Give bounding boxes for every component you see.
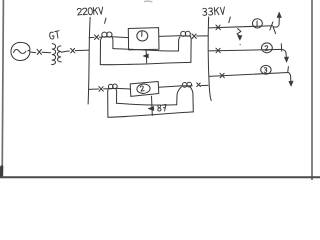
line 2: breaker X (right): [197, 83, 201, 87]
breaker X (generator side): [37, 49, 42, 54]
relay 2 mark (2): [140, 86, 144, 92]
label 33KV: [203, 7, 225, 16]
wire through CT: [108, 87, 117, 89]
line 2 CT secondary outer wire: [108, 112, 193, 117]
tick under 220KV label: [105, 18, 106, 23]
line 2: wire relay box to right CT: [159, 86, 181, 87]
line 1: wire breaker to CT: [99, 36, 102, 38]
relay 1 connection wire: [145, 50, 148, 63]
circled number 2: [262, 43, 273, 53]
page background: [0, 0, 320, 180]
line 2: wire breaker to 33kV bus: [201, 84, 208, 86]
relay 1 circle symbol: [137, 31, 148, 41]
relay 1 mark (1): [141, 32, 143, 37]
label 220KV: [77, 7, 103, 16]
line 1: wire relay box to right CT: [159, 35, 179, 38]
bus 33kV: [208, 17, 211, 101]
line 2: wire bus to breaker: [89, 88, 99, 90]
feeder 2 breaker X: [216, 48, 220, 53]
feeder 1 fault lightning arrow: [237, 29, 241, 37]
line 1: breaker X (right): [192, 34, 196, 39]
line 1 left CT secondary lead (outer): [100, 38, 101, 65]
line 1: CT (right) loops: [181, 31, 186, 36]
line 1 CT secondary outer wire: [100, 62, 191, 64]
line 1: wire CT to relay box: [112, 36, 128, 39]
relay box 1: [128, 28, 159, 50]
wire through CT: [102, 36, 112, 38]
feeder 1 end arrow (up): [273, 16, 279, 27]
wire breaker to transformer: [42, 51, 51, 54]
line 2 right CT secondary lead (inner): [177, 87, 182, 105]
bus 220kV: [88, 17, 90, 104]
feeder 3 wire: [209, 73, 288, 77]
line 1: wire bus to breaker: [89, 36, 94, 38]
relay 2 arrow: [148, 106, 154, 110]
feeder 3 end arrow (down): [288, 73, 291, 83]
feeder 1 stub: [273, 27, 276, 33]
wire breaker to 220kV bus: [75, 49, 89, 52]
wire through CT: [179, 35, 191, 37]
feeder 3 breaker X: [220, 73, 224, 78]
line 2: CT (left) loops: [108, 84, 113, 89]
line 1 left CT secondary lead (inner): [111, 37, 114, 48]
line 1 right CT secondary lead (outer): [189, 37, 192, 63]
circled number 3: [261, 65, 271, 74]
line 1: breaker X (left): [94, 35, 98, 40]
line 1: wire breaker to 33kV bus: [197, 35, 208, 37]
relay 2 connection wire: [151, 96, 154, 115]
feeder 1 end slash: [270, 22, 273, 30]
generator G: [11, 42, 30, 60]
feeder 2 end tick: [280, 44, 282, 51]
circled number 1: [253, 19, 263, 28]
line 2 left CT secondary lead (outer): [107, 89, 110, 117]
tick under 33KV label: [229, 17, 231, 23]
label GT: [49, 31, 60, 40]
line 2: breaker X (left): [99, 87, 103, 92]
feeder 2 end arrow (down): [282, 49, 287, 58]
wire through CT: [181, 85, 192, 87]
feeder 1 breaker X: [216, 25, 220, 30]
relay 1 arrow: [143, 54, 148, 58]
line 2 right CT secondary lead (outer): [190, 87, 194, 112]
line 2: CT (right) loops: [182, 83, 187, 88]
breaker X (transformer HV side): [71, 48, 75, 53]
line 2: wire CT to relay box: [117, 87, 130, 90]
wire transformer to breaker: [62, 51, 70, 52]
label 87: [157, 104, 166, 111]
feeder 3 end tick: [287, 67, 290, 73]
feeder 2 wire: [209, 49, 282, 51]
line 2 CT secondary inner wire: [117, 103, 177, 105]
line 1 right CT secondary lead (inner): [179, 37, 181, 51]
line 1 CT secondary inner wire: [113, 49, 179, 51]
feeder 1 wire: [209, 26, 273, 28]
transformer GT winding (secondary, right): [57, 46, 61, 62]
line 2 left CT secondary lead (inner): [115, 89, 118, 103]
line 1: CT (left) loops: [102, 32, 107, 37]
relay box 2: [130, 82, 159, 97]
faint smudge: [145, 0, 152, 3]
wire generator to breaker: [30, 51, 36, 54]
relay 2 circle symbol: [136, 83, 150, 94]
line 2: wire breaker to CT: [104, 88, 108, 90]
transformer GT winding (primary, left): [52, 44, 56, 65]
